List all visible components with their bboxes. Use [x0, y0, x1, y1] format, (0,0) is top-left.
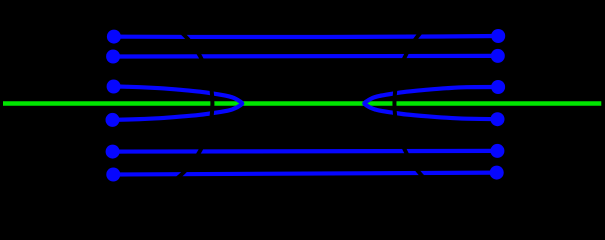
dot right 5	[490, 144, 504, 158]
dot left 1	[107, 30, 121, 44]
dot right 6	[490, 166, 504, 180]
dot right 1	[491, 29, 505, 43]
right arc	[394, 16, 438, 190]
dot left 5	[106, 145, 120, 159]
dot right 4	[491, 112, 505, 126]
dot left 4	[106, 113, 120, 127]
solution curve L6	[113, 173, 496, 175]
right parenthesis solution pair	[364, 87, 498, 119]
dot right 2	[491, 49, 505, 63]
left parenthesis solution pair	[113, 86, 243, 120]
dot left 2	[106, 50, 120, 64]
black masking arcs (create slash gaps)	[171, 16, 438, 190]
dot right 3	[491, 80, 505, 94]
solution curve L1 top	[114, 36, 498, 37]
endpoint dots	[106, 29, 506, 182]
dot left 6	[106, 168, 120, 182]
dot left 3	[107, 80, 121, 94]
solution curve L2	[113, 54, 498, 59]
left arc	[171, 24, 212, 183]
solution curve L5	[113, 149, 498, 154]
equilibrium line (green)	[3, 101, 601, 106]
